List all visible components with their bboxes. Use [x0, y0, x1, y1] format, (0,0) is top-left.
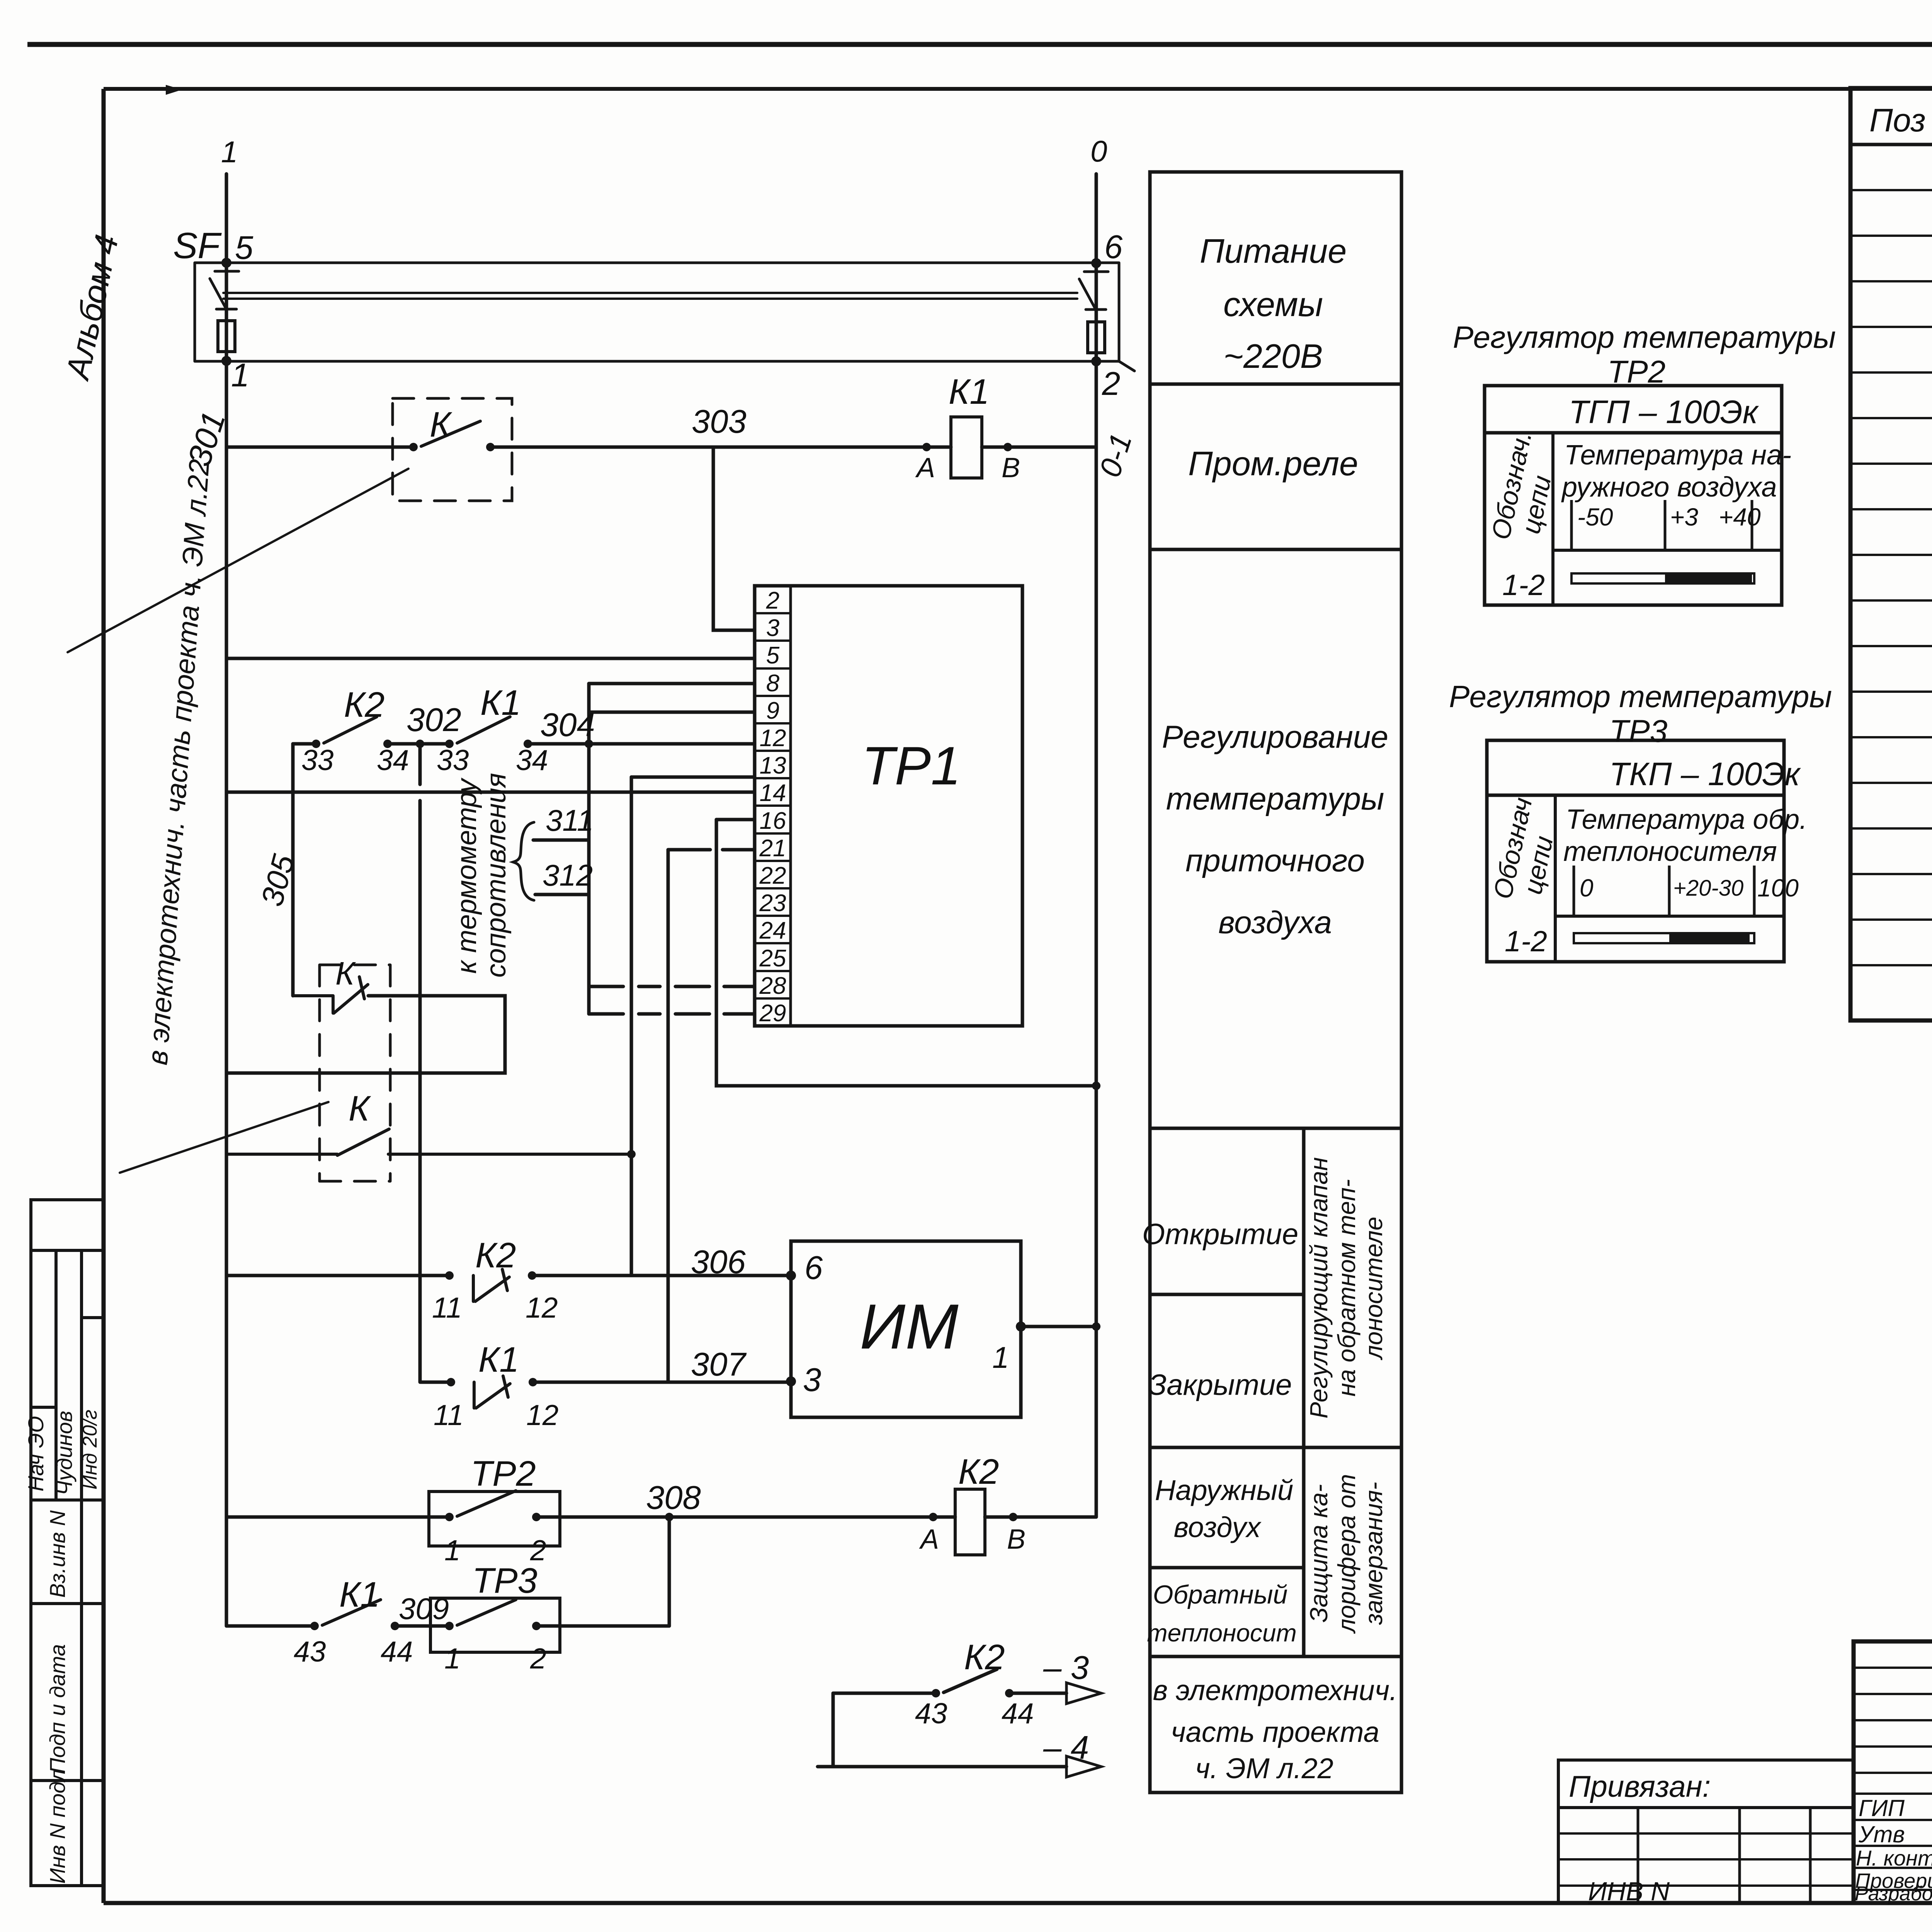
SCHEMATIC-LABELS	[141, 134, 1138, 1766]
svg-text:температуры: температуры	[1166, 781, 1384, 816]
fuse FU right	[1088, 322, 1105, 353]
svg-text:Чудинов: Чудинов	[52, 1411, 77, 1495]
svg-text:ТКП – 100Эк: ТКП – 100Эк	[1609, 756, 1801, 792]
svg-text:Обратный: Обратный	[1153, 1580, 1288, 1609]
svg-text:307: 307	[691, 1346, 747, 1383]
svg-text:замерзания-: замерзания-	[1360, 1482, 1388, 1625]
svg-text:8: 8	[766, 670, 780, 697]
TP1 terminal numbers	[759, 587, 786, 1027]
TP1 regulator block	[755, 586, 1022, 1026]
contact K2 43-44 arrows	[932, 1689, 940, 1697]
svg-text:1: 1	[992, 1340, 1009, 1374]
svg-text:1-2: 1-2	[1505, 925, 1547, 958]
svg-text:ТР1: ТР1	[862, 735, 961, 796]
arrow head 4	[1066, 1756, 1101, 1777]
svg-text:часть проекта: часть проекта	[1171, 1716, 1379, 1748]
svg-text:К: К	[430, 405, 452, 444]
svg-text:Альбом 4: Альбом 4	[59, 231, 126, 384]
svg-text:309: 309	[399, 1592, 449, 1626]
node 6	[1091, 258, 1101, 268]
svg-text:11: 11	[434, 1399, 464, 1431]
svg-text:ГИП: ГИП	[1859, 1795, 1905, 1821]
wire 301	[226, 446, 1096, 449]
wire vertical 1634	[630, 777, 633, 1276]
svg-text:24: 24	[759, 917, 786, 944]
svg-text:В: В	[1007, 1524, 1026, 1555]
svg-text:ТР3: ТР3	[472, 1561, 537, 1600]
leader line to K box top	[68, 469, 408, 652]
relay coil K2	[955, 1489, 985, 1555]
svg-text:44: 44	[381, 1635, 413, 1668]
svg-text:Нач ЭО: Нач ЭО	[24, 1416, 48, 1492]
svg-text:ружного воздуха: ружного воздуха	[1561, 472, 1777, 503]
switch panel SF box	[195, 263, 1119, 361]
svg-text:6: 6	[1104, 229, 1123, 265]
wire 308 row	[226, 1515, 1096, 1519]
svg-text:Утв: Утв	[1858, 1821, 1905, 1847]
wire to arrow 3	[833, 1692, 1066, 1695]
leader line to K box middle	[120, 1102, 328, 1173]
wire: left supply bus 1	[225, 174, 228, 1626]
svg-text:12: 12	[526, 1291, 558, 1324]
svg-text:303: 303	[692, 403, 747, 440]
svg-text:в электротехнич.: в электротехнич.	[1153, 1674, 1397, 1706]
wire to terminal 5	[228, 657, 755, 660]
svg-text:3: 3	[766, 615, 779, 641]
brace for 311 312	[513, 822, 534, 900]
svg-text:0-1: 0-1	[1092, 429, 1138, 481]
svg-text:К2: К2	[475, 1236, 516, 1275]
svg-text:Поз: Поз	[1869, 102, 1926, 138]
wire under TP1 to bus	[716, 820, 1096, 1086]
TP2 scale ticks	[1571, 500, 1752, 550]
wire 312	[535, 893, 589, 896]
svg-text:302: 302	[406, 702, 461, 738]
svg-text:ТР3: ТР3	[1609, 714, 1667, 749]
contact K1 43-44	[310, 1622, 319, 1630]
svg-text:в электротехнич. часть проект: в электротехнич. часть проекта ч. ЭМ л.2…	[141, 458, 215, 1066]
TP3 range bar	[1574, 933, 1754, 943]
svg-text:Регулирующий клапан: Регулирующий клапан	[1305, 1157, 1333, 1418]
svg-text:5: 5	[235, 230, 253, 266]
wire 311	[533, 801, 589, 840]
svg-text:1: 1	[444, 1642, 461, 1675]
wire: link bus between SF blades	[223, 293, 1077, 299]
wire 303 drop to terminal 3	[713, 447, 755, 630]
svg-text:Защита ка-: Защита ка-	[1305, 1484, 1333, 1622]
svg-text:Открытие: Открытие	[1142, 1218, 1298, 1251]
contact K2 11-12	[445, 1271, 454, 1280]
svg-text:~220В: ~220В	[1224, 337, 1323, 375]
left margin stamp lower box	[31, 1500, 104, 1886]
svg-text:Питание: Питание	[1200, 232, 1347, 270]
svg-text:В: В	[1002, 452, 1020, 483]
wire 306 row	[226, 1274, 791, 1277]
svg-text:2: 2	[766, 587, 779, 614]
wire: right supply bus 0	[1095, 174, 1098, 1517]
wire 305 vertical	[291, 744, 295, 996]
svg-text:воздух: воздух	[1174, 1511, 1262, 1543]
svg-text:312: 312	[543, 858, 593, 892]
contact K NC middle	[293, 977, 368, 1013]
junction 308/309	[665, 1513, 673, 1521]
svg-text:Н. контр: Н. контр	[1856, 1846, 1932, 1870]
svg-text:6: 6	[804, 1250, 823, 1286]
svg-text:К1: К1	[339, 1575, 380, 1614]
wire to terminal 9	[589, 711, 755, 714]
svg-text:SF: SF	[173, 225, 222, 266]
dashed box K relay top	[393, 398, 512, 501]
svg-text:схемы: схемы	[1223, 285, 1323, 323]
svg-text:28: 28	[759, 973, 786, 999]
svg-text:12: 12	[760, 725, 786, 752]
contact K2 33-34	[312, 740, 320, 748]
svg-text:Температура на-: Температура на-	[1564, 440, 1791, 471]
node 5	[221, 258, 231, 268]
wire to terminal 16	[716, 818, 755, 821]
left margin stamp upper box	[31, 1200, 104, 1500]
wire vertical 1524 branch	[587, 684, 591, 1014]
component list table grid	[1850, 88, 1932, 1020]
svg-text:14: 14	[760, 780, 786, 806]
svg-text:29: 29	[759, 1000, 786, 1027]
thermometer TP3 detail table	[1487, 740, 1784, 962]
wire to terminal 29	[589, 1012, 755, 1016]
dashed box K relay middle	[320, 965, 390, 1181]
svg-text:+3: +3	[1670, 503, 1698, 531]
svg-text:Инд 20/г: Инд 20/г	[79, 1410, 101, 1490]
contact K on wire 301	[409, 443, 418, 451]
TP2 range bar	[1571, 573, 1754, 583]
svg-text:Пром.реле: Пром.реле	[1188, 444, 1358, 483]
wire vertical 309 to 308	[668, 1517, 671, 1626]
contact K1 11-12	[447, 1378, 455, 1386]
svg-text:1: 1	[221, 135, 238, 169]
svg-text:13: 13	[760, 752, 786, 779]
svg-text:16: 16	[760, 808, 786, 834]
wire 302/304 row	[293, 742, 755, 746]
svg-text:А: А	[915, 452, 935, 483]
svg-text:лорифера от: лорифера от	[1333, 1474, 1361, 1634]
svg-text:– 3: – 3	[1043, 1650, 1089, 1686]
svg-text:К1: К1	[478, 1340, 519, 1379]
drawing frame	[104, 87, 1932, 91]
svg-text:44: 44	[1002, 1697, 1034, 1730]
svg-text:Закрытие: Закрытие	[1149, 1369, 1292, 1401]
svg-text:теплоносит: теплоносит	[1147, 1619, 1297, 1647]
arrow head 3	[1066, 1683, 1101, 1704]
wire row 2777	[226, 996, 505, 1073]
svg-text:Регулятор температуры: Регулятор температуры	[1449, 679, 1832, 714]
svg-text:ч. ЭМ л.22: ч. ЭМ л.22	[1195, 1752, 1333, 1784]
svg-text:ИМ: ИМ	[860, 1291, 959, 1362]
svg-text:к термометру: к термометру	[451, 777, 482, 974]
contact K1 33-34	[445, 740, 454, 748]
svg-text:ТР2: ТР2	[1607, 354, 1665, 389]
fuse FU left	[218, 321, 235, 352]
svg-text:Разработ.: Разработ.	[1855, 1883, 1932, 1905]
svg-text:К2: К2	[344, 685, 384, 724]
svg-text:-50: -50	[1577, 503, 1613, 531]
svg-text:33: 33	[301, 744, 334, 776]
svg-text:43: 43	[915, 1697, 947, 1730]
svg-text:311: 311	[546, 803, 594, 837]
TP3 scale ticks	[1574, 866, 1754, 916]
svg-text:2: 2	[1102, 366, 1120, 402]
svg-text:Температура обр.: Температура обр.	[1566, 804, 1807, 835]
svg-text:0: 0	[1580, 874, 1594, 902]
svg-text:1-2: 1-2	[1502, 569, 1545, 602]
svg-text:34: 34	[516, 744, 548, 776]
attachment table	[1558, 1760, 1854, 1903]
svg-text:9: 9	[766, 697, 779, 724]
svg-text:Привязан:: Привязан:	[1569, 1769, 1711, 1803]
svg-text:+40: +40	[1719, 503, 1761, 531]
wire 309 row	[226, 1624, 669, 1628]
svg-text:К1: К1	[949, 372, 989, 412]
svg-text:ТР2: ТР2	[471, 1454, 536, 1493]
wire IM pin 1 to bus	[1021, 1325, 1096, 1328]
svg-text:лоносителе: лоносителе	[1360, 1217, 1388, 1361]
svg-text:Подп и дата: Подп и дата	[45, 1644, 70, 1774]
svg-text:Наружный: Наружный	[1155, 1474, 1293, 1506]
wire to terminal 28	[589, 985, 755, 988]
svg-text:теплоносителя: теплоносителя	[1563, 836, 1777, 867]
wire to terminal 13	[631, 776, 755, 779]
svg-text:3: 3	[803, 1362, 821, 1398]
svg-text:К2: К2	[958, 1452, 999, 1492]
svg-text:А: А	[919, 1524, 939, 1555]
svg-text:43: 43	[294, 1635, 326, 1668]
svg-text:сопротивления: сопротивления	[481, 773, 512, 978]
wire to arrow 4	[833, 1765, 1066, 1769]
svg-text:0: 0	[1090, 134, 1107, 168]
svg-text:1: 1	[231, 357, 249, 394]
thermostat TP3 contact box	[430, 1598, 560, 1652]
function column box	[1150, 172, 1401, 1793]
frame arrow tick	[166, 85, 181, 94]
wire junction vertical 1087	[418, 744, 422, 1382]
svg-text:22: 22	[759, 862, 786, 889]
wire 307 row	[421, 1381, 791, 1384]
svg-text:+20-30: +20-30	[1673, 876, 1743, 901]
switch SF left blade	[210, 271, 239, 309]
switch SF right blade	[1079, 272, 1108, 310]
title block grid	[1854, 1641, 1932, 1903]
svg-text:К2: К2	[964, 1638, 1005, 1677]
svg-text:12: 12	[526, 1399, 558, 1431]
svg-text:34: 34	[377, 744, 409, 776]
svg-text:Регулирование: Регулирование	[1162, 719, 1388, 755]
thermometer TP2 detail table	[1485, 386, 1782, 605]
svg-text:21: 21	[759, 835, 786, 862]
svg-text:Регулятор температуры: Регулятор температуры	[1453, 320, 1836, 354]
svg-text:– 4: – 4	[1043, 1730, 1089, 1766]
svg-text:на обратном теп-: на обратном теп-	[1333, 1179, 1361, 1397]
svg-text:2: 2	[530, 1642, 546, 1675]
svg-text:23: 23	[759, 890, 786, 917]
SF box corner arrow	[1119, 361, 1134, 371]
arrow circuit left bracket	[818, 1693, 833, 1767]
svg-text:304: 304	[540, 707, 595, 743]
relay coil K1	[951, 417, 982, 478]
svg-text:25: 25	[759, 945, 786, 972]
svg-text:приточного: приточного	[1185, 843, 1365, 878]
actuator IM box	[791, 1241, 1021, 1417]
wire to terminal 21	[668, 848, 755, 852]
svg-text:Инв N подл: Инв N подл	[45, 1769, 70, 1884]
svg-text:Вз.инв N: Вз.инв N	[45, 1510, 70, 1598]
svg-text:11: 11	[432, 1291, 462, 1324]
svg-text:К1: К1	[480, 683, 521, 723]
svg-text:5: 5	[766, 642, 780, 669]
FUNCTION-COLUMN	[1150, 172, 1401, 1793]
wire vertical 1729	[667, 850, 670, 1382]
sheet top border line	[27, 42, 1932, 47]
svg-text:306: 306	[691, 1244, 746, 1281]
thermostat TP2 contact box	[429, 1492, 560, 1546]
node 2	[1091, 356, 1101, 366]
svg-text:1: 1	[444, 1534, 461, 1566]
svg-text:К: К	[349, 1089, 371, 1128]
svg-text:308: 308	[646, 1480, 701, 1516]
svg-text:33: 33	[437, 744, 469, 776]
svg-text:ТГП – 100Эк: ТГП – 100Эк	[1569, 394, 1759, 430]
svg-text:ИНВ N: ИНВ N	[1588, 1877, 1670, 1906]
svg-text:воздуха: воздуха	[1218, 905, 1332, 940]
node 1	[221, 356, 231, 366]
wire to terminal 8	[589, 682, 755, 685]
svg-text:100: 100	[1757, 874, 1799, 902]
svg-text:К: К	[335, 955, 356, 992]
contact K NO lower	[226, 1129, 631, 1155]
wire to terminal 14	[226, 791, 755, 794]
